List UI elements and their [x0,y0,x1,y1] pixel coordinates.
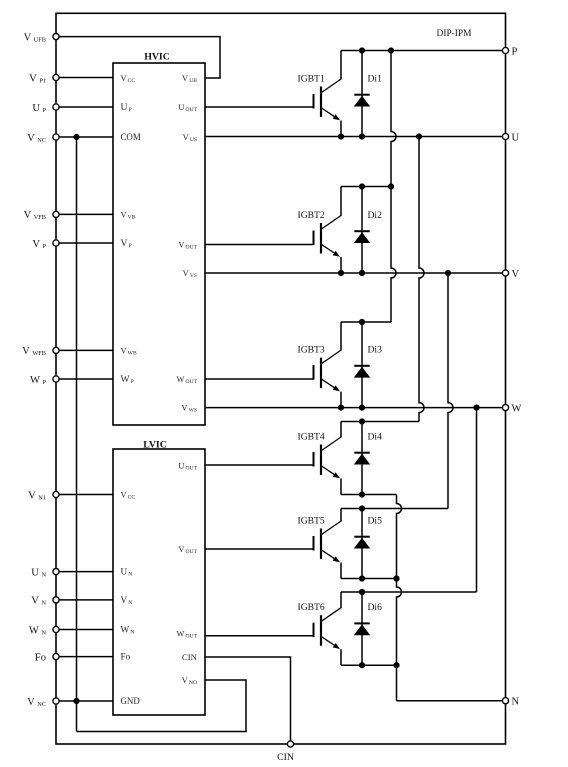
svg-text:Di4: Di4 [368,432,383,443]
wire IGBT6 collector branch [341,591,477,593]
junction IGBT6 emitter on N rail [393,662,399,668]
wire IGBT4 emitter to N rail [341,494,397,496]
wire N line to N terminal [397,700,503,702]
junction Di4 cathode [359,418,365,424]
transistor IGBT1 [314,51,342,137]
wire HVIC VOUT to IGBT2 gate [205,244,314,246]
wire LVIC VOUT to IGBT5 gate [205,548,314,550]
wire V_N to IC pin [59,599,113,601]
wire U phase line (VUS sense to U terminal) [205,136,503,138]
diode Di1 freewheel [354,51,370,137]
label Di4 [368,432,383,443]
HVIC pin label VP [121,238,132,249]
svg-text:Di3: Di3 [368,345,383,356]
wire IGBT2 collector branch [341,186,391,188]
svg-text:COM: COM [121,132,141,142]
svg-text:HVIC: HVIC [144,52,170,63]
junction P rail at IGBT2 collector [388,183,394,189]
junction Di2 cathode [359,183,365,189]
junction W line to IGBT6 rail [473,405,479,411]
terminal U_N [31,567,59,578]
diode Di6 freewheel [354,592,370,665]
wire IGBT6 emitter to N rail [341,664,397,666]
op-amp/IC HVIC box [113,63,205,425]
wire W_P to IC pin [59,378,113,380]
svg-text:Fo: Fo [121,652,131,662]
DIP-IPM package outline border [56,13,506,744]
wire IGBT5 emitter to N rail [341,578,397,580]
label IGBT6 [298,602,325,613]
LVIC pin label UOUT [178,462,197,472]
terminal V_VFB [24,210,60,221]
wire HVIC WOUT to IGBT3 gate [205,378,314,380]
svg-text:Di6: Di6 [368,602,383,613]
wire V_P1 to IC pin [59,77,113,79]
terminal V [502,269,519,280]
HVIC pin label VCC [121,74,136,84]
svg-text:DIP-IPM: DIP-IPM [437,29,473,39]
junction IGBT5 emitter on N rail [393,575,399,581]
HVIC pin label VUS [183,133,197,143]
label Di5 [368,516,383,527]
wire W to IGBT6 collector rail [476,408,478,592]
wire LVIC VNO pin return loop to COM/GND [77,680,247,732]
wire U_N to IC pin [59,571,113,573]
terminal V_WFB [22,346,59,357]
wire W_N to IC pin [59,629,113,631]
wire LVIC WOUT to IGBT6 gate [205,635,314,637]
junction Di6 anode [359,662,365,668]
terminal U_P [32,103,59,114]
svg-text:IGBT4: IGBT4 [298,432,325,443]
label DIP-IPM [437,29,473,39]
terminal W [502,403,521,414]
terminal W_P [30,375,59,386]
terminal V_NC [27,133,59,144]
label IGBT1 [298,74,325,85]
terminal V_UFB [24,32,60,43]
wire W phase line (VWS sense to W terminal) [205,407,503,409]
label IGBT4 [298,432,325,443]
wire IGBT5 collector branch [341,508,448,510]
terminal V_N [31,596,59,607]
wire P rail horizontal [341,50,503,52]
svg-text:IGBT2: IGBT2 [298,210,325,221]
transistor IGBT6 [314,592,342,665]
label Di6 [368,602,383,613]
LVIC pin label VNO [182,676,197,686]
wire V_WFB to IC pin [59,349,113,351]
svg-text:LVIC: LVIC [143,440,167,451]
label IGBT2 [298,210,325,221]
HVIC pin label VWB [121,346,137,356]
wire V_UFB to HVIC VUB pin [59,37,220,78]
LVIC pin label VCC [121,491,136,501]
HVIC pin label UP [121,102,132,113]
wire HVIC UOUT to IGBT1 gate [205,106,314,108]
wire COM rail vertical V_NC to GND net [76,137,78,732]
label Di1 [368,74,383,85]
junction IGBT1 emitter on U line [338,133,344,139]
svg-text:V: V [512,269,520,280]
HVIC pin label COM [121,132,141,142]
junction Di1 anode on U line [359,133,365,139]
label LVIC [143,440,167,451]
junction COM at V_NC top [73,134,79,140]
HVIC pin label WOUT [176,375,197,385]
wire LVIC CIN pin to CIN terminal [205,657,291,741]
transistor IGBT3 [314,322,342,408]
label Di2 [368,210,383,221]
wire N rail vertical with hops over IGBT5 and IGBT6 collector branches [397,495,402,701]
svg-text:Di2: Di2 [368,210,383,221]
HVIC pin label VOUT [178,241,197,251]
wire V_VFB to IC pin [59,213,113,215]
terminal N [502,697,519,708]
wire V_N1 to IC pin [59,494,113,496]
terminal V_P [32,239,59,250]
svg-text:IGBT3: IGBT3 [298,345,325,356]
LVIC pin label CIN [182,652,198,662]
LVIC pin label WN [121,625,135,636]
label HVIC [144,52,170,63]
svg-text:IGBT5: IGBT5 [298,516,325,527]
junction P rail at Di1 cathode [359,47,365,53]
terminal U [502,132,519,143]
wire Fo to IC pin [59,656,113,658]
wire U to IGBT4 collector rail with hops over V and W lines [419,137,424,422]
junction Di6 cathode [359,589,365,595]
diode Di3 freewheel [354,322,370,408]
wire LVIC UOUT to IGBT4 gate [205,464,314,466]
wire U_P to IC pin [59,106,113,108]
LVIC pin label GND [121,696,141,706]
label IGBT3 [298,345,325,356]
junction Di5 anode [359,575,365,581]
terminal P [502,46,517,57]
HVIC pin label WP [121,374,134,385]
wire V to IGBT5 collector rail with hop over W line [448,273,453,509]
svg-text:W: W [512,403,522,414]
HVIC pin label VVS [183,269,197,279]
HVIC pin label VWS [181,404,197,414]
svg-text:Di5: Di5 [368,516,383,527]
junction U line to IGBT4 rail [416,133,422,139]
diode Di2 freewheel [354,187,370,274]
LVIC pin label VN [121,595,133,606]
HVIC pin label UOUT [178,103,197,113]
wire V_NC to IC pin [59,136,113,138]
wire IGBT3 collector branch [341,321,391,323]
junction P rail branch [388,47,394,53]
wire V phase line (VVS sense to V terminal) [205,272,503,274]
terminal V_NC2 [27,697,59,708]
junction Di4 anode [359,491,365,497]
diode Di5 freewheel [354,509,370,579]
label Di3 [368,345,383,356]
terminal W_N [29,625,59,636]
junction Di3 cathode [359,319,365,325]
svg-text:CIN: CIN [277,752,294,762]
terminal CIN [277,741,294,763]
LVIC pin label WOUT [176,630,197,640]
junction Di5 cathode [359,505,365,511]
svg-text:Fo: Fo [35,652,46,663]
IC LVIC box [113,449,205,715]
wire P rail vertical with hops over U and V lines [391,51,396,323]
svg-text:U: U [512,132,520,143]
junction IGBT3 emitter on W line [338,405,344,411]
transistor IGBT5 [314,509,342,579]
terminal V_N1 [28,490,59,501]
junction Di3 anode on W line [359,405,365,411]
transistor IGBT2 [314,187,342,274]
svg-text:N: N [512,697,520,708]
terminal V_P1 [29,73,59,84]
terminal Fo [35,652,59,663]
wire IGBT4 collector branch [341,421,419,423]
wire V_NC2 to IC pin [59,700,113,702]
label IGBT5 [298,516,325,527]
svg-text:Di1: Di1 [368,74,383,85]
diode Di4 freewheel [354,422,370,495]
LVIC pin label UN [121,567,133,578]
LVIC pin label VOUT [178,545,197,555]
LVIC pin label Fo [121,652,131,662]
junction IGBT2 emitter on V line [338,270,344,276]
svg-text:IGBT6: IGBT6 [298,602,325,613]
svg-text:P: P [512,46,518,57]
svg-text:GND: GND [121,696,141,706]
svg-text:IGBT1: IGBT1 [298,74,325,85]
transistor IGBT4 [314,422,342,495]
svg-text:CIN: CIN [182,652,198,662]
junction V line to IGBT5 rail [445,270,451,276]
HVIC pin label VVB [121,210,136,220]
wire V_P to IC pin [59,242,113,244]
HVIC pin label VUB [182,74,197,84]
junction COM at GND wire [73,698,79,704]
junction Di2 anode on V line [359,270,365,276]
